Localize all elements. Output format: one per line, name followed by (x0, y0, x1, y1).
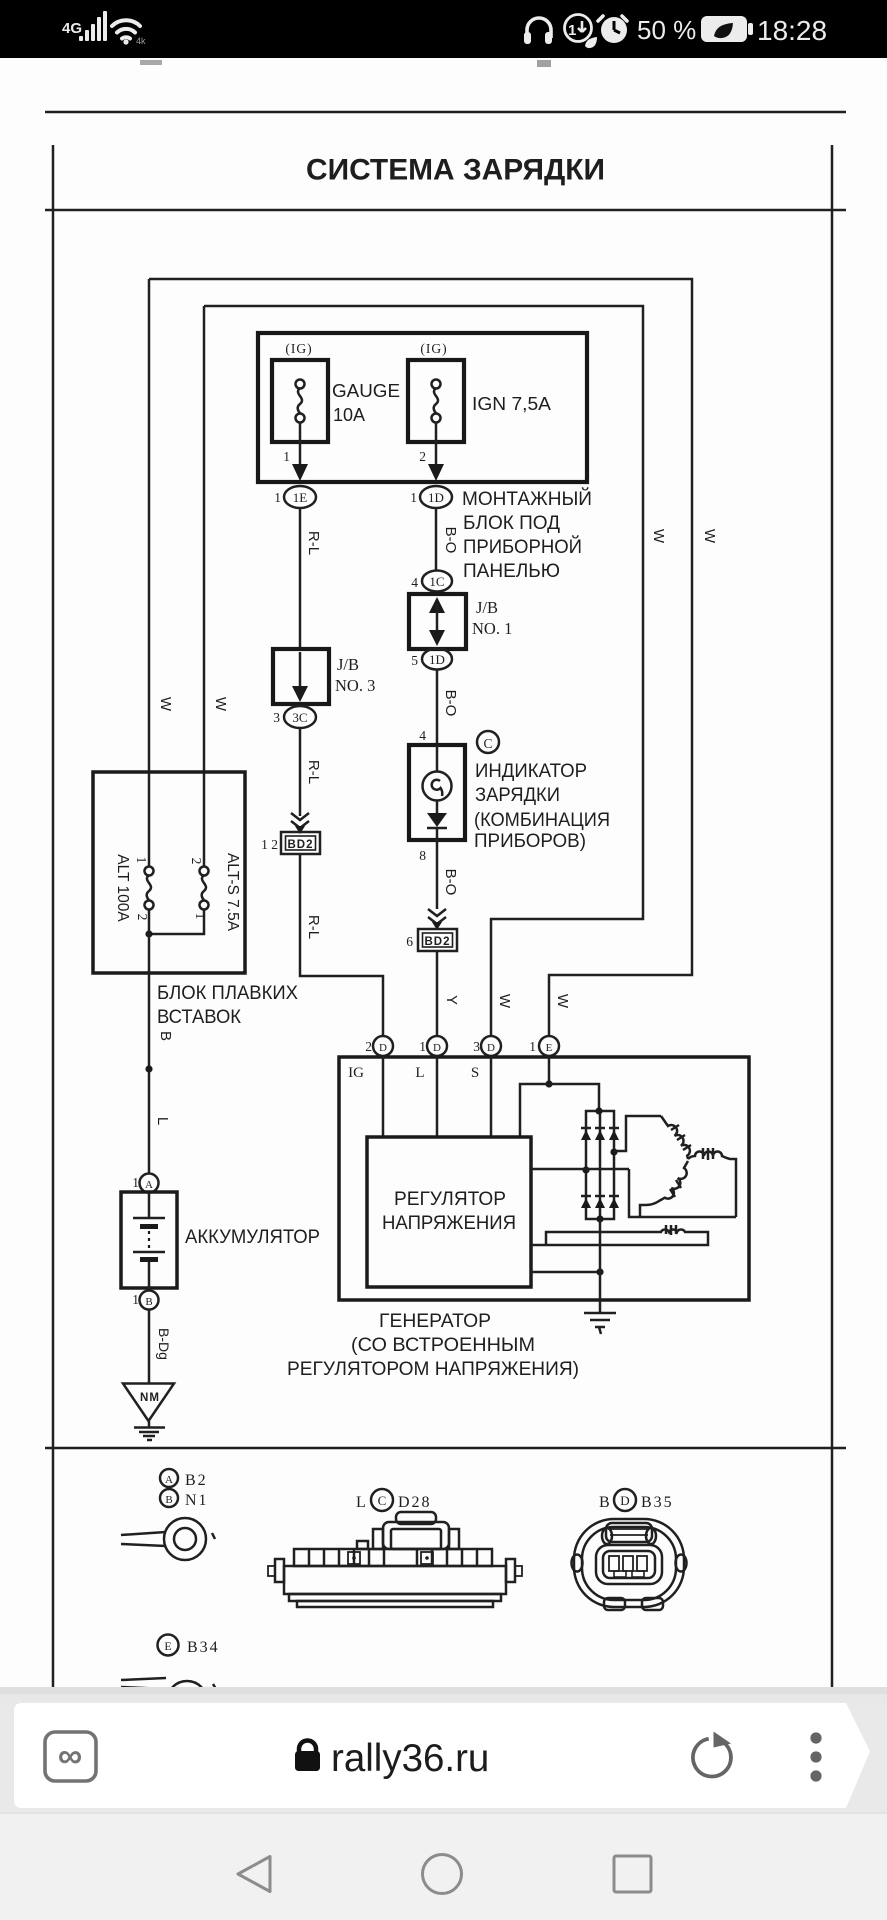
svg-text:1: 1 (132, 1292, 139, 1307)
svg-text:ВСТАВОК: ВСТАВОК (157, 1007, 241, 1028)
svg-text:РЕГУЛЯТОР: РЕГУЛЯТОР (394, 1189, 506, 1210)
svg-text:(СО ВСТРОЕННЫМ: (СО ВСТРОЕННЫМ (351, 1335, 535, 1356)
battery icon with leaf (701, 16, 753, 42)
wire R-L from BD2 to generator IG (300, 854, 383, 1037)
svg-text:W: W (701, 529, 718, 544)
wire Y from BD2 to generator L (436, 951, 439, 1037)
svg-text:S: S (471, 1065, 479, 1081)
svg-text:B: B (145, 1296, 152, 1308)
wire rectifier to stator top (614, 1116, 661, 1151)
svg-text:ПРИБОРОВ): ПРИБОРОВ) (474, 831, 586, 852)
fusible link block БЛОК ПЛАВКИХ ВСТАВОК (93, 772, 245, 973)
svg-text:1: 1 (134, 857, 149, 864)
svg-text:J/B: J/B (476, 598, 498, 617)
rectifier diode bridge (581, 1111, 619, 1219)
ground symbol battery (134, 1421, 165, 1440)
junction dot rectifier bottom (596, 1215, 603, 1222)
node D circle L (427, 1036, 447, 1056)
junction dot on battery wire (145, 1065, 152, 1072)
svg-text:W: W (554, 994, 571, 1009)
node A circle (140, 1174, 159, 1193)
junction dot rectifier right mid (610, 1148, 617, 1155)
svg-text:2: 2 (419, 449, 426, 464)
svg-text:A: A (145, 1179, 153, 1191)
svg-text:L: L (356, 1494, 366, 1511)
svg-text:1: 1 (568, 22, 576, 39)
svg-text:B-O: B-O (442, 527, 459, 554)
svg-text:1: 1 (193, 913, 208, 920)
svg-text:L: L (154, 1117, 171, 1125)
wire W inner route (ALT-S fuse to generator S) (204, 306, 643, 1037)
svg-text:1D: 1D (428, 490, 444, 505)
svg-text:БЛОК ПЛАВКИХ: БЛОК ПЛАВКИХ (157, 983, 298, 1004)
svg-text:A: A (165, 1474, 173, 1486)
alarm clock icon (598, 16, 627, 43)
arrow chevrons into BD2 (291, 813, 309, 834)
svg-text:J/B: J/B (337, 655, 359, 674)
wire S into regulator (490, 1056, 493, 1137)
svg-text:50 %: 50 % (637, 15, 696, 45)
svg-text:ПАНЕЛЬЮ: ПАНЕЛЬЮ (463, 561, 560, 582)
label ИНДИКАТОР ЗАРЯДКИ (КОМБИНАЦИЯ ПРИБОРОВ) (474, 761, 610, 852)
faint remnants of content above scroll (140, 60, 162, 65)
wire W outer route (ALT fuse to generator E) (149, 279, 692, 1037)
stator bottom edge (629, 1169, 736, 1217)
frame right border (831, 145, 834, 1687)
svg-text:4G: 4G (62, 20, 82, 37)
svg-text:D: D (487, 1042, 495, 1054)
svg-text:СИСТЕМА ЗАРЯДКИ: СИСТЕМА ЗАРЯДКИ (306, 154, 605, 187)
svg-text:B2: B2 (185, 1472, 208, 1489)
svg-text:1: 1 (529, 1039, 536, 1054)
fusible link ALT 100A (145, 867, 154, 910)
J/B No.3 box with arrow (273, 649, 329, 704)
svg-text:D: D (433, 1042, 441, 1054)
node E circle (539, 1036, 559, 1056)
fusible link ALT-S 7.5A (200, 867, 209, 910)
grey background behind banner (0, 1705, 887, 1812)
connector 1E (284, 486, 316, 508)
svg-text:1: 1 (283, 449, 290, 464)
svg-text:B-O: B-O (442, 869, 459, 896)
wire IG into regulator (382, 1056, 385, 1137)
svg-text:R-L: R-L (305, 915, 322, 939)
svg-text:B: B (599, 1494, 610, 1511)
charge indicator lamp with diode (409, 745, 465, 840)
wire R-L from 3C to BD2 (299, 728, 302, 816)
node A label B2 (160, 1469, 208, 1489)
stator winding right coil (688, 1148, 736, 1217)
svg-text:ГЕНЕРАТОР: ГЕНЕРАТОР (379, 1311, 491, 1332)
svg-text:W: W (157, 697, 174, 712)
svg-text:W: W (650, 529, 667, 544)
wire rectifier to ground (599, 1219, 602, 1313)
browser chrome bottom area (0, 1687, 887, 1920)
ring terminal A/B (121, 1518, 215, 1560)
frame left border (52, 145, 55, 1687)
svg-text:NO. 3: NO. 3 (335, 676, 375, 695)
wire W inner left vertical (203, 306, 206, 866)
wire B-O from 1D to 1C (435, 508, 438, 571)
label junction block МОНТАЖНЫЙ БЛОК ПОД ПРИБОРНОЙ ПАНЕЛЬЮ (462, 488, 592, 582)
connector 1D (420, 486, 452, 508)
svg-text:GAUGE: GAUGE (332, 381, 400, 401)
svg-text:C: C (378, 1493, 387, 1508)
title top rule (45, 111, 846, 114)
wire ALT-S bottom to junction (149, 910, 204, 934)
arrow chevrons into BD2 pin 6 (428, 909, 446, 930)
connector BD2 (pin 6) (418, 929, 457, 951)
label БЛОК ПЛАВКИХ ВСТАВОК (157, 983, 298, 1028)
svg-text:4: 4 (411, 575, 418, 590)
ground symbol generator (584, 1313, 616, 1334)
svg-text:(КОМБИНАЦИЯ: (КОМБИНАЦИЯ (474, 810, 610, 831)
svg-text:3: 3 (273, 710, 280, 725)
wire B-Dg battery to ground (148, 1310, 151, 1384)
fuse IGN 7.5A (408, 360, 464, 442)
svg-text:W: W (496, 994, 513, 1009)
svg-text:10A: 10A (333, 405, 365, 425)
label L C D28 (356, 1489, 432, 1511)
svg-text:6: 6 (406, 934, 413, 949)
stator winding lower coil (640, 1161, 688, 1217)
shadow band above url bar (0, 1687, 887, 1696)
svg-text:ИНДИКАТОР: ИНДИКАТОР (475, 761, 587, 782)
svg-text:4: 4 (419, 728, 426, 743)
connector D28 drawing (268, 1512, 522, 1607)
svg-text:B35: B35 (641, 1494, 674, 1511)
tab switcher infinity box (45, 1732, 96, 1781)
junction dot ground wire (596, 1268, 603, 1275)
wire regulator to rectifier left (531, 1168, 629, 1171)
svg-text:W: W (212, 697, 229, 712)
svg-text:1E: 1E (293, 490, 308, 505)
svg-text:B34: B34 (187, 1639, 220, 1656)
J/B No.1 box with double arrows (409, 594, 466, 649)
stator winding upper coil (661, 1116, 691, 1159)
svg-text:5: 5 (411, 653, 418, 668)
svg-text:2: 2 (189, 858, 204, 865)
wire E to regulator top (520, 1084, 549, 1137)
ground triangle NM (123, 1384, 174, 1422)
svg-text:E: E (164, 1639, 171, 1653)
svg-text:НАПРЯЖЕНИЯ: НАПРЯЖЕНИЯ (382, 1213, 516, 1234)
node D circle IG (373, 1036, 393, 1056)
svg-text:(IG): (IG) (285, 341, 312, 356)
node B circle (140, 1291, 159, 1310)
svg-text:IG: IG (348, 1065, 364, 1081)
svg-text:4k: 4k (136, 36, 146, 46)
label B D B35 (599, 1489, 674, 1511)
svg-text:R-L: R-L (305, 531, 322, 555)
wire regulator to ground junction (531, 1271, 600, 1274)
nav back triangle (238, 1857, 270, 1892)
svg-text:1: 1 (419, 1039, 426, 1054)
title bottom rule (45, 209, 846, 212)
svg-text:R-L: R-L (305, 760, 322, 784)
frame bottom rule (45, 1447, 846, 1450)
node D circle S (481, 1036, 501, 1056)
svg-text:D: D (379, 1042, 387, 1054)
wire L into regulator (436, 1056, 439, 1137)
junction dot fusible links (145, 930, 152, 937)
svg-text:18:28: 18:28 (757, 15, 827, 46)
signal bars (79, 11, 107, 41)
voltage regulator box (367, 1137, 531, 1287)
svg-text:N1: N1 (185, 1492, 209, 1509)
svg-text:ALT 100A: ALT 100A (114, 854, 131, 922)
svg-text:1: 1 (274, 490, 281, 505)
battery АККУМУЛЯТОР (121, 1192, 177, 1289)
android status bar (0, 0, 887, 58)
svg-text:ПРИБОРНОЙ: ПРИБОРНОЙ (463, 536, 582, 558)
svg-text:∞: ∞ (58, 1737, 82, 1775)
three dot menu (810, 1732, 821, 1743)
svg-text:АККУМУЛЯТОР: АККУМУЛЯТОР (185, 1227, 320, 1248)
junction dot rectifier top (595, 1107, 602, 1114)
data saver circle icon (565, 15, 598, 49)
wire fuse1 to connector 1E with arrow (292, 422, 308, 481)
wire W outer left vertical (148, 279, 151, 866)
reload icon (693, 1732, 731, 1777)
svg-text:B: B (165, 1494, 172, 1506)
connector 1C (422, 571, 452, 592)
generator box (339, 1057, 749, 1300)
node B label N1 (160, 1489, 209, 1509)
headphones icon (524, 18, 552, 44)
svg-text:BD2: BD2 (287, 839, 313, 851)
svg-text:РЕГУЛЯТОРОМ НАПРЯЖЕНИЯ): РЕГУЛЯТОРОМ НАПРЯЖЕНИЯ) (287, 1359, 579, 1380)
svg-text:1: 1 (410, 490, 417, 505)
connector B35 drawing (572, 1519, 687, 1610)
svg-text:IGN 7,5A: IGN 7,5A (472, 394, 551, 414)
svg-text:3C: 3C (292, 710, 307, 725)
svg-text:NM: NM (140, 1392, 160, 1404)
wire E into generator (548, 1056, 551, 1084)
svg-text:(IG): (IG) (420, 341, 447, 356)
wire B-O from indicator to BD2 (436, 840, 439, 909)
connector BD2 (pin 12) (281, 832, 320, 854)
svg-text:ALT-S 7.5A: ALT-S 7.5A (224, 853, 241, 932)
svg-text:BD2: BD2 (424, 936, 450, 948)
svg-text:B: B (157, 1031, 174, 1041)
lock icon (299, 1741, 316, 1753)
svg-text:D: D (620, 1493, 629, 1508)
junction dot rectifier left mid (582, 1166, 589, 1173)
svg-text:1C: 1C (429, 574, 444, 589)
ring terminal E (cut off) (121, 1678, 216, 1721)
svg-text:E: E (546, 1042, 553, 1054)
wire fuse2 to connector 1D with arrow (428, 422, 444, 481)
wifi icon (112, 20, 140, 44)
svg-text:8: 8 (419, 848, 426, 863)
svg-text:rally36.ru: rally36.ru (331, 1737, 489, 1780)
node C circle (477, 731, 499, 753)
svg-text:3: 3 (473, 1039, 480, 1054)
nav home circle (423, 1855, 462, 1894)
rotor field coil (531, 1225, 708, 1245)
svg-text:1D: 1D (429, 652, 445, 667)
svg-text:1: 1 (132, 1175, 139, 1190)
svg-text:2: 2 (365, 1039, 372, 1054)
wire R-L from 1E to J/B No.3 (299, 508, 302, 649)
svg-text:B-Dg: B-Dg (156, 1328, 172, 1360)
node E label B34 (158, 1635, 220, 1657)
fuse box (ignition fuses) (258, 333, 587, 482)
svg-text:Y: Y (443, 995, 460, 1005)
white url banner with arrow point (14, 1703, 870, 1808)
connector 3C (284, 706, 316, 728)
svg-text:C: C (483, 736, 492, 751)
svg-text:1 2: 1 2 (261, 837, 278, 852)
svg-text:NO. 1: NO. 1 (472, 619, 512, 638)
svg-text:L: L (415, 1065, 424, 1081)
junction dot E node (545, 1080, 552, 1087)
svg-text:БЛОК ПОД: БЛОК ПОД (463, 513, 560, 534)
svg-text:B-O: B-O (442, 690, 459, 717)
wire B-O from 1D to charge indicator (436, 670, 439, 745)
label РЕГУЛЯТОР НАПРЯЖЕНИЯ (382, 1189, 516, 1234)
navigation bar (0, 1812, 887, 1920)
fuse GAUGE 10A (272, 360, 328, 442)
label ГЕНЕРАТОР (СО ВСТРОЕННЫМ РЕГУЛЯТОРОМ НАПРЯЖЕНИЯ) (287, 1311, 579, 1380)
svg-text:МОНТАЖНЫЙ: МОНТАЖНЫЙ (462, 488, 592, 510)
svg-text:D28: D28 (398, 1494, 432, 1511)
svg-text:ЗАРЯДКИ: ЗАРЯДКИ (475, 785, 560, 806)
nav recents square (614, 1856, 651, 1892)
wire E to rectifier top (549, 1084, 599, 1111)
connector 1D (pin 5) (422, 649, 452, 670)
wire B from fuse block to battery (148, 910, 151, 1174)
